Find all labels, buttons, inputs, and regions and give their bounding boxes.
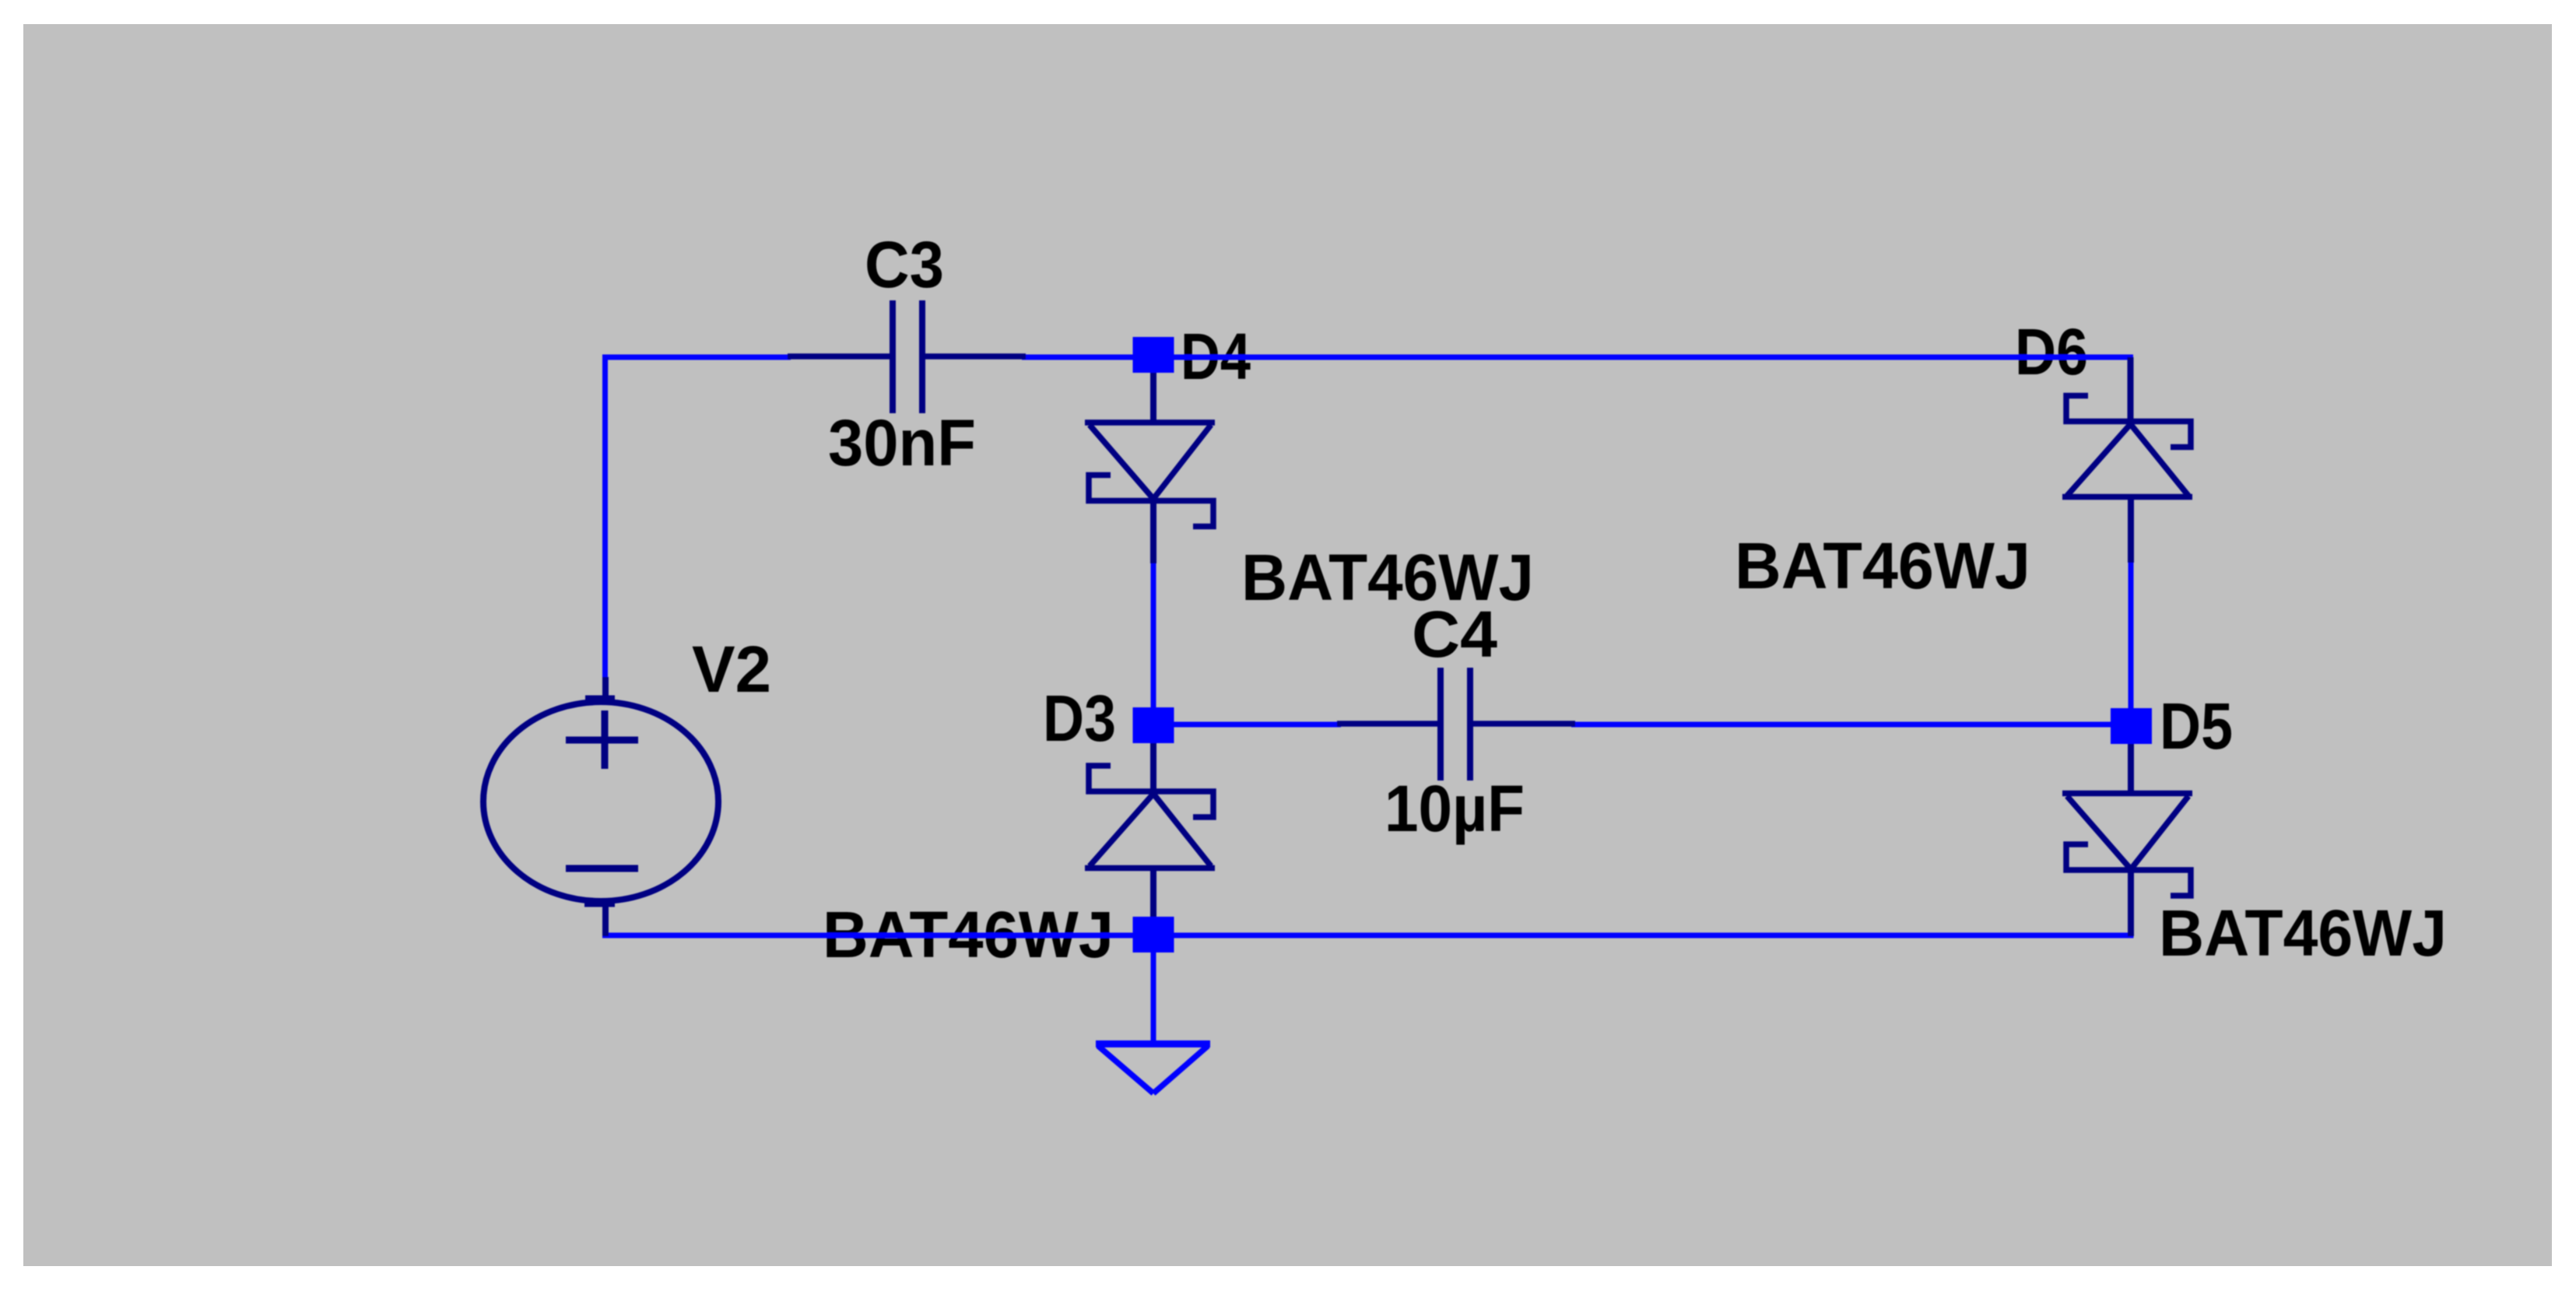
diode D6 triangle left side bbox=[2067, 424, 2131, 496]
diode D4 triangle right side bbox=[1153, 425, 1211, 499]
junction node D3 bbox=[1133, 707, 1174, 743]
wire middle right (C4 to D5 node) bbox=[1571, 722, 2131, 728]
wire bottom horizontal (V2 minus to D3 node to D5) bbox=[602, 933, 2134, 938]
capacitor C3 right plate bbox=[919, 300, 925, 413]
svg-text:V2: V2 bbox=[692, 633, 771, 706]
wire left vertical (V2 top) bbox=[602, 355, 608, 679]
svg-text:BAT46WJ: BAT46WJ bbox=[1735, 529, 2030, 602]
diode D6 cathode lead bbox=[2128, 357, 2134, 423]
svg-text:BAT46WJ: BAT46WJ bbox=[2159, 896, 2447, 970]
diode D5 triangle left side bbox=[2067, 796, 2131, 869]
diode D3 anode lead bbox=[1150, 868, 1156, 930]
V2 top lead bbox=[602, 677, 609, 705]
diode D6 schottky cathode bar bbox=[2066, 396, 2191, 447]
V2 top pin tick bbox=[585, 696, 615, 701]
V2 bottom pin tick bbox=[584, 902, 615, 907]
wire middle left (D3 node to C4) bbox=[1153, 722, 1341, 728]
diode D6 anode lead bbox=[2128, 496, 2134, 563]
capacitor C4 right lead bbox=[1470, 721, 1575, 727]
wire D6 bottom to D5 node vertical bbox=[2129, 561, 2134, 726]
svg-text:C3: C3 bbox=[865, 228, 944, 301]
wire top-left horizontal (V2 top to C3) bbox=[602, 355, 791, 360]
svg-text:D5: D5 bbox=[2160, 689, 2233, 763]
svg-text:C4: C4 bbox=[1412, 598, 1497, 671]
junction node D4 bbox=[1133, 337, 1174, 373]
capacitor C3 right lead bbox=[922, 353, 1026, 360]
diode D4 triangle base bbox=[1085, 419, 1215, 426]
wire D4 cathode to D3 node vertical bbox=[1151, 562, 1156, 725]
diode D3 triangle right side bbox=[1153, 794, 1211, 866]
junction node ground bbox=[1133, 917, 1174, 952]
capacitor C3 left lead bbox=[788, 353, 893, 360]
diode D4 schottky cathode bar bbox=[1089, 475, 1213, 527]
diode D3 schottky cathode bar bbox=[1089, 766, 1213, 817]
wire top horizontal (C3 to D4 to D6) bbox=[1022, 355, 2133, 360]
capacitor C4 right plate bbox=[1467, 668, 1473, 781]
svg-text:D6: D6 bbox=[2015, 315, 2088, 388]
diode D3 triangle left side bbox=[1090, 794, 1153, 866]
capacitor C4 left plate bbox=[1437, 668, 1444, 781]
ground symbol bbox=[1096, 1040, 1210, 1047]
diode D4 triangle left side bbox=[1090, 425, 1153, 499]
capacitor C4 left lead bbox=[1337, 721, 1441, 727]
svg-text:10µF: 10µF bbox=[1385, 772, 1525, 845]
diode D5 triangle base bbox=[2062, 791, 2192, 797]
diode D6 triangle base bbox=[2062, 494, 2192, 500]
V2 bottom lead bbox=[602, 899, 609, 936]
diode D3 cathode lead bbox=[1150, 735, 1156, 793]
diode D6 triangle right side bbox=[2131, 424, 2189, 496]
diode D5 cathode lead bbox=[2128, 870, 2134, 936]
capacitor C3 left plate bbox=[890, 300, 896, 413]
V2 minus sign bbox=[566, 865, 638, 872]
svg-text:D3: D3 bbox=[1043, 682, 1116, 755]
diode D5 schottky cathode bar bbox=[2066, 844, 2191, 896]
diode D4 cathode lead bbox=[1150, 500, 1156, 563]
svg-text:30nF: 30nF bbox=[828, 406, 976, 479]
V2 plus sign bbox=[566, 737, 638, 744]
diode D4 anode lead bbox=[1150, 366, 1156, 424]
wire D3 anode node to ground vertical bbox=[1151, 952, 1156, 1044]
voltage source V2 circle bbox=[483, 702, 718, 901]
junction node D5 bbox=[2111, 708, 2152, 744]
diode D3 triangle base bbox=[1085, 865, 1215, 872]
diode D5 triangle right side bbox=[2131, 796, 2188, 869]
diode D5 anode lead bbox=[2128, 737, 2134, 795]
